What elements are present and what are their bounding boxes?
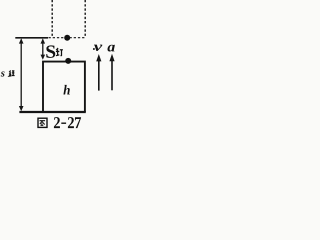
label 绳 (CJK, drawn) — [9, 71, 15, 77]
label h — [63, 85, 69, 95]
v arrow — [96, 54, 101, 91]
ceiling line — [15, 37, 48, 39]
S measurement arrow (double headed) — [41, 38, 46, 59]
caption 2-27 — [54, 117, 60, 128]
dashed box bottom — [49, 37, 86, 39]
s measurement arrow (left, double headed) — [19, 38, 24, 111]
label .v — [93, 48, 95, 50]
caption 图 (CJK, drawn) — [38, 118, 47, 127]
dashed box left side — [51, 0, 53, 37]
ball B1 on dashed line — [64, 35, 70, 41]
dashed box right side — [84, 0, 86, 37]
ball B2 on block top — [65, 58, 71, 64]
block rectangle (sides + top) — [43, 62, 85, 112]
ground / block bottom line — [19, 111, 85, 113]
label a — [107, 45, 114, 52]
label 钉 (CJK, drawn) — [56, 48, 63, 56]
a arrow — [109, 54, 114, 91]
background — [0, 0, 120, 135]
label S — [46, 45, 55, 58]
label s (rope length) — [1, 71, 5, 76]
